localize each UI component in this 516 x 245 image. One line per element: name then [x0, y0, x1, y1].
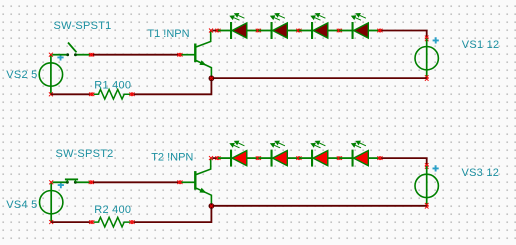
junction LED chain 3 (bottom row): [296, 156, 301, 160]
plus marker of VS1: [433, 37, 439, 43]
wire VS2 bottom to R1: [51, 93, 90, 95]
junction LED chain 1 (top row): [215, 29, 220, 33]
label VS3 12: [462, 167, 500, 179]
junction at VS3 bottom: [425, 203, 429, 209]
junction R2 right: [129, 220, 134, 224]
svg-text:T2 !NPN: T2 !NPN: [151, 152, 193, 164]
junction switch SW-SPST1 right pin: [89, 53, 94, 57]
junction at VS4 bottom: [49, 220, 53, 224]
LED LD4 (off, dark): [339, 13, 380, 39]
resistor R2: [94, 217, 131, 227]
plus marker of VS4: [58, 182, 64, 188]
svg-text:VS4 5: VS4 5: [6, 199, 37, 211]
junction LED chain 1 (bottom row): [215, 156, 220, 160]
label R1 400: [94, 80, 131, 92]
LED LD8 (lit, bright): [339, 141, 380, 167]
transistor T1 (NPN): [182, 31, 212, 79]
junction at VS2 bottom: [49, 92, 53, 96]
junction at T1 base: [177, 53, 182, 57]
node at T1 emitter: [209, 75, 215, 81]
wire collector to LED chain (bottom): [212, 157, 217, 159]
junction R1 left: [89, 93, 94, 97]
junction at T2 collector top: [209, 156, 213, 160]
wire R2 to emitter node: [134, 208, 212, 222]
wire VS1 bottom to T1 emitter node: [214, 77, 427, 79]
wire LED chain to VS1 top: [381, 31, 426, 38]
LED LD2 (off, dark): [258, 13, 299, 39]
label R2 400: [94, 204, 131, 216]
junction LED chain 3 (top row): [296, 29, 301, 33]
label SW-SPST2: [56, 148, 114, 160]
wire LED chain to VS3 top: [381, 158, 426, 165]
wire VS4 bottom to R2: [51, 221, 90, 223]
wire R1 to emitter node: [134, 81, 212, 95]
wire switch to T2 base: [93, 181, 178, 183]
switch SW-SPST1 (open): [52, 43, 90, 57]
wire collector to LED chain: [212, 30, 217, 32]
voltage source VS4: [40, 182, 63, 222]
LED LD1 (off, dark): [218, 13, 259, 39]
wire switch to T1 base: [93, 54, 178, 56]
junction LED chain 4 (top row): [337, 29, 342, 33]
LED LD6 (lit, bright): [258, 141, 299, 167]
switch SW-SPST2 (closed): [53, 179, 91, 183]
label VS4 5: [6, 199, 37, 211]
junction at T1 collector top: [209, 29, 213, 33]
label SW-SPST1: [54, 20, 112, 32]
label T1 !NPN: [147, 28, 189, 40]
svg-text:VS1 12: VS1 12: [462, 39, 500, 51]
voltage source VS2: [39, 55, 62, 95]
label T2 !NPN: [151, 152, 193, 164]
voltage source VS3: [415, 166, 438, 206]
transistor T2 (NPN): [182, 158, 212, 206]
junction LED chain 2 (bottom row): [256, 156, 261, 160]
junction at T2 base: [177, 181, 182, 185]
junction R1 right: [129, 93, 134, 97]
junction at VS2 top: [49, 53, 53, 57]
junction LED chain 4 (bottom row): [337, 156, 342, 160]
svg-text:VS2 5: VS2 5: [6, 69, 37, 81]
junction at VS1 bottom: [425, 75, 429, 81]
resistor R1: [94, 90, 131, 100]
LED LD5 (lit, bright): [218, 141, 259, 167]
label VS1 12: [462, 39, 500, 51]
LED LD7 (lit, bright): [299, 141, 340, 167]
svg-text:R1 400: R1 400: [94, 80, 131, 92]
junction at VS3 top: [425, 163, 429, 169]
plus marker of VS3: [433, 165, 439, 171]
junction LED chain end (bottom row): [377, 156, 382, 160]
junction at VS4 top: [49, 180, 53, 184]
label VS2 5: [6, 69, 37, 81]
wire VS3 bottom to T2 emitter node: [214, 205, 427, 207]
svg-text:VS3 12: VS3 12: [462, 167, 500, 179]
junction R2 left: [89, 220, 94, 224]
junction LED chain end (top row): [377, 29, 382, 33]
svg-text:R2 400: R2 400: [94, 204, 131, 216]
svg-text:SW-SPST2: SW-SPST2: [56, 148, 114, 160]
node at T2 emitter: [209, 203, 215, 209]
junction at VS1 top: [425, 36, 429, 42]
svg-text:T1 !NPN: T1 !NPN: [147, 28, 189, 40]
junction LED chain 2 (top row): [256, 29, 261, 33]
LED LD3 (off, dark): [299, 13, 340, 39]
voltage source VS1: [415, 38, 438, 78]
svg-text:SW-SPST1: SW-SPST1: [54, 20, 112, 32]
plus marker of VS2: [57, 54, 63, 60]
junction switch SW-SPST2 right pin: [89, 181, 94, 185]
